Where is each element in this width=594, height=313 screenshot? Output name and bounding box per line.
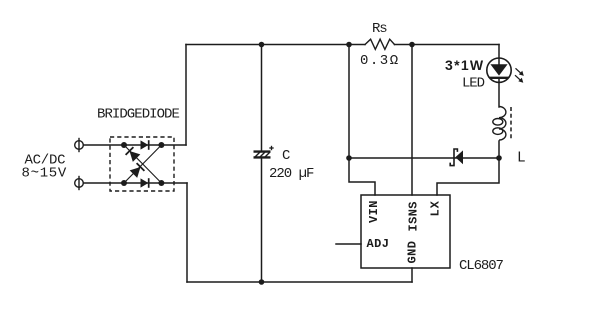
wire: top rail left of resistor (186, 44, 365, 46)
wire: left vertical from top rail to bridge (185, 45, 187, 146)
bridge diode D2 (bottom, pointing right) (141, 178, 149, 188)
node: bridge TL junction (121, 142, 127, 148)
svg-text:220 µF: 220 µF (269, 166, 314, 182)
svg-text:ADJ: ADJ (367, 237, 390, 251)
wire: capacitor branch lower (261, 157, 263, 282)
schottky diode D5 (pointing left on mid rail) (450, 149, 463, 166)
bridge rectifier BD1 dashed box (110, 137, 174, 191)
inductor L core dashed line (510, 107, 512, 140)
svg-text:C: C (282, 148, 290, 164)
resistor Rs zigzag (365, 39, 395, 49)
svg-text:LX: LX (429, 200, 443, 216)
node: resistor left junction (346, 42, 352, 48)
wire: bridge top horizontal (83, 144, 186, 146)
terminal J2 (AC input bottom) (75, 176, 84, 190)
wire: left vertical from bridge to bottom rail (186, 183, 188, 282)
node: bridge TR junction (158, 142, 164, 148)
capacitor C (electrolytic, hatched plate) (254, 152, 271, 158)
terminal J1 (AC input top) (75, 138, 84, 152)
inductor L coil (493, 107, 506, 141)
svg-text:Rs: Rs (372, 21, 387, 37)
capacitor C plus sign (269, 146, 273, 150)
svg-text:LED: LED (462, 76, 485, 92)
svg-text:L: L (517, 151, 526, 167)
node: bridge BR junction (158, 180, 164, 186)
LED light arrow 2 (515, 75, 523, 83)
svg-text:8~15V: 8~15V (22, 166, 68, 182)
node: bridge BL junction (121, 180, 127, 186)
svg-text:ISNS: ISNS (407, 201, 421, 231)
LED light arrow 1 (516, 68, 524, 76)
bridge diagonal wire BL-TR (124, 145, 161, 183)
wire: top rail right of resistor (395, 44, 500, 46)
wire: inductor to mid rail (498, 141, 500, 158)
LED diode triangle (490, 64, 507, 75)
wire: bottom rail (187, 281, 412, 283)
svg-text:3*1W: 3*1W (445, 57, 484, 73)
wire: capacitor branch upper (261, 45, 263, 152)
wire: drop to LED (498, 45, 500, 65)
svg-text:GND: GND (405, 241, 419, 264)
bridge diode D4 (lower diagonal, pointing up-right) (130, 163, 145, 178)
node: cap top junction (259, 42, 265, 48)
bridge diode D1 (top, pointing right) (141, 140, 149, 150)
svg-text:BRIDGEDIODE: BRIDGEDIODE (97, 107, 180, 123)
svg-text:0.3Ω: 0.3Ω (360, 53, 400, 69)
node: cap bottom junction (259, 279, 265, 285)
wire: LED to inductor (498, 78, 500, 107)
LED circle (487, 58, 511, 82)
LED cathode bar (490, 77, 509, 79)
bridge diagonal wire TL-BR (124, 145, 161, 183)
wire: VIN branch with staircase (349, 45, 375, 196)
wire: ISNS vertical (411, 45, 413, 196)
svg-text:CL6807: CL6807 (459, 258, 504, 274)
node: resistor right junction (409, 42, 415, 48)
IC U1 CL6807 box (361, 195, 450, 268)
wire: LX staircase (437, 158, 499, 195)
wire: ADJ stub (336, 243, 361, 245)
wire: mid horizontal rail node (349, 157, 499, 159)
node: LX mid-rail junction (496, 155, 502, 161)
node: VIN mid-rail junction (346, 155, 352, 161)
svg-text:VIN: VIN (367, 200, 381, 223)
bridge diode D3 (upper diagonal, pointing up-left) (126, 147, 141, 162)
wire: bridge bottom horizontal (83, 182, 187, 184)
wire: GND pin to bottom rail (411, 268, 413, 282)
